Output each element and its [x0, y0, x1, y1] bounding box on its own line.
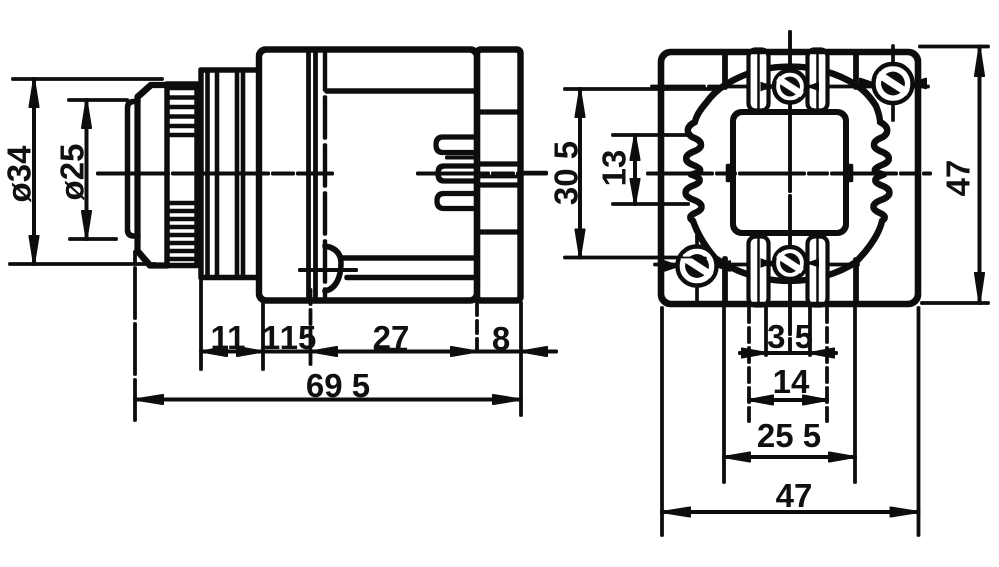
25.5 dimension line: [724, 456, 855, 459]
screw bottom-left: [664, 247, 730, 285]
pin housing thin middle line: [478, 175, 516, 178]
top slot left midline: [757, 52, 761, 108]
13 dimension line: [634, 135, 637, 204]
socket body rim outline (circle with keyway scallops): [685, 67, 889, 282]
knurl hatch top group: [168, 88, 196, 135]
main body rectangle: [259, 50, 477, 301]
top pin: [436, 137, 477, 153]
svg-text:47: 47: [776, 477, 813, 514]
dia34 bottom extension line: [10, 263, 155, 266]
view vertical center line: [789, 32, 792, 352]
right view bottom extension x810: [809, 306, 812, 355]
collar section outline: [201, 70, 259, 278]
center line (left view axis): [98, 172, 546, 175]
center pin tail: [521, 171, 546, 174]
bottom extension line x521: [520, 303, 523, 415]
knurl hatch bottom group: [168, 203, 196, 259]
view horizontal center line: [648, 172, 930, 175]
pin housing divider lines: [477, 112, 521, 232]
rim stub bottom-left: [723, 259, 728, 304]
top slot group right: [808, 50, 827, 110]
dia25 arrows: [82, 100, 91, 239]
svg-text:27: 27: [373, 319, 410, 356]
screw top-right: [860, 65, 926, 103]
screw bottom-center: [761, 248, 819, 279]
overall dimension line 69.5: [135, 398, 521, 401]
rim stub bottom-right: [854, 260, 859, 304]
30.5 top extension line: [565, 88, 714, 91]
button cap outer profile: [138, 85, 168, 266]
dia25 bottom extension line: [70, 238, 116, 241]
right view bottom extension x749 dashed: [748, 308, 751, 421]
chain dimension line (11/15/27/8): [201, 350, 556, 353]
right view bottom extension x724: [723, 308, 726, 482]
body double vertical lines: [309, 50, 316, 301]
svg-text:8: 8: [492, 320, 510, 357]
bottom slot left midline: [757, 240, 761, 303]
30.5 arrows: [576, 89, 585, 258]
top-right screw vertical center line: [892, 46, 895, 120]
collar inner ring lines: [208, 70, 244, 278]
bottom extension line x310.5 dashed: [309, 290, 312, 370]
30.5 dimension line: [579, 89, 582, 258]
outer mounting square: [661, 52, 918, 304]
right view bottom extension x855: [854, 308, 857, 482]
rim stub top-left: [723, 52, 728, 87]
bottom pin: [437, 194, 477, 209]
bottom extension line x135: [134, 252, 137, 420]
middle pin inner line: [445, 172, 472, 175]
dia25 dimension line: [85, 100, 88, 239]
rear pin housing rectangle: [477, 50, 521, 301]
bump center tick: [300, 269, 356, 272]
right view bottom extension x662: [661, 308, 664, 535]
svg-text:ø25: ø25: [54, 144, 91, 201]
svg-text:1: 1: [262, 319, 280, 356]
screw top-center: [761, 71, 819, 102]
14 dimension line: [749, 399, 827, 402]
13 arrows: [631, 135, 640, 204]
svg-text:3 5: 3 5: [767, 318, 813, 355]
bottom extension line x263: [262, 303, 265, 369]
27 underline: [374, 348, 407, 351]
dia34 arrows: [30, 79, 39, 264]
bottom slot group right: [808, 237, 827, 305]
dia34 dimension line: [33, 79, 36, 264]
svg-text:30 5: 30 5: [548, 141, 585, 205]
knurled ring outline: [167, 84, 197, 266]
body inner horizontal lower pair: [341, 258, 477, 278]
47 right dimension line: [978, 47, 981, 304]
rim stub top-right: [854, 52, 859, 87]
47 right top extension line: [920, 45, 988, 48]
svg-text:47: 47: [940, 160, 977, 197]
body inner horizontal upper: [327, 89, 477, 94]
13 top extension line: [613, 134, 688, 137]
25.5 arrows: [724, 453, 855, 462]
47 bottom dimension line: [662, 511, 919, 514]
bottom slot right midline: [816, 240, 820, 303]
bottom slot group left: [749, 237, 768, 305]
bottom extension line x477 dashed: [476, 303, 479, 350]
69.5 arrows: [135, 395, 521, 404]
middle pin: [438, 166, 477, 181]
top slot right midline: [816, 52, 820, 108]
47 right arrows: [975, 47, 984, 304]
central square window: [733, 112, 846, 233]
dia34 top extension line: [13, 78, 162, 81]
bottom-left screw vertical center line: [696, 232, 699, 305]
chain arrows: [201, 347, 547, 356]
top screws center line: [652, 85, 928, 88]
13 bottom extension line: [613, 203, 688, 206]
svg-text:69 5: 69 5: [306, 367, 370, 404]
47 right bottom extension line: [922, 302, 988, 305]
top pin extra lower line: [447, 156, 476, 159]
bottom screws center line: [655, 263, 858, 266]
svg-text:15: 15: [280, 319, 317, 356]
30.5 bottom extension line: [565, 256, 706, 259]
central square left bump: [728, 166, 733, 180]
svg-text:25 5: 25 5: [757, 417, 821, 454]
top slot group left: [749, 50, 768, 110]
button lip (front face of pushbutton): [128, 102, 139, 237]
central square right bump: [846, 166, 851, 180]
3.5 arrows: [742, 349, 834, 358]
3.5 dimension line: [740, 352, 836, 355]
svg-text:14: 14: [773, 363, 810, 400]
svg-text:11: 11: [211, 319, 246, 356]
body hidden dashed vertical: [323, 50, 326, 301]
right view bottom extension x827 dashed: [826, 308, 829, 421]
14 arrows: [749, 396, 827, 405]
bottom extension line x201: [200, 281, 203, 369]
rivet bump on hidden line: [325, 246, 341, 291]
47 bottom arrows: [662, 508, 919, 517]
dia25 top extension line: [69, 99, 127, 102]
svg-text:13: 13: [596, 150, 633, 187]
right view bottom extension x918.5: [917, 308, 920, 535]
svg-text:ø34: ø34: [1, 145, 38, 203]
right view bottom extension x766: [765, 306, 768, 355]
